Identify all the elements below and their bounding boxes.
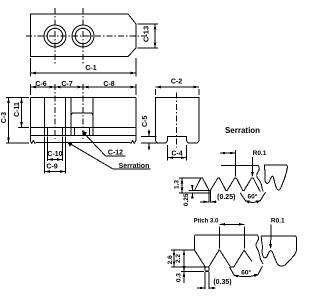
- svg-text:C-2: C-2: [171, 78, 182, 85]
- hole H1 counterbore circle: [44, 25, 66, 47]
- dimension C-3: [1, 98, 29, 144]
- svg-text:Serration: Serration: [119, 163, 150, 170]
- serration detail 2 dim (0.35) root width: [197, 279, 232, 289]
- serration detail 2 break S-curve: [256, 235, 263, 263]
- svg-text:2.6: 2.6: [167, 255, 174, 264]
- svg-text:(0.25): (0.25): [217, 194, 235, 201]
- serration detail 2 root relief: [205, 267, 209, 289]
- label Serration leader front view: [67, 142, 151, 170]
- hole H2 bore circle: [75, 28, 91, 44]
- svg-text:60°: 60°: [241, 269, 251, 277]
- svg-text:Serration: Serration: [225, 126, 260, 135]
- serration detail 1 pitch dimension: [220, 150, 236, 177]
- centerline hole H1 vertical: [54, 8, 56, 64]
- hole H1 counterbore right line: [65, 98, 67, 128]
- svg-text:R0.1: R0.1: [271, 218, 285, 225]
- svg-text:C-13: C-13: [142, 26, 151, 42]
- serration detail 1 top surface line: [221, 165, 258, 167]
- svg-text:C-8: C-8: [103, 81, 114, 88]
- svg-text:C-9: C-9: [46, 163, 57, 170]
- svg-text:C-11: C-11: [14, 102, 21, 117]
- serration detail 2 angle 60: [230, 266, 263, 278]
- serration detail 1 dim 1.3: [174, 178, 184, 193]
- front view outline: [31, 98, 137, 144]
- serration detail 1 root relief rect: [209, 190, 211, 202]
- svg-text:C-4: C-4: [171, 151, 182, 158]
- centerline horizontal top view: [26, 35, 148, 37]
- svg-text:C-12: C-12: [108, 150, 123, 157]
- centerline front view hole H1: [54, 84, 56, 139]
- hole H1 counterbore left line: [44, 98, 46, 128]
- svg-text:C-10: C-10: [47, 151, 62, 158]
- front view serration root line: [31, 135, 137, 137]
- serration detail 2 R0.1 label: [269, 218, 285, 250]
- serration detail 2 top surface line: [194, 235, 258, 250]
- dimension C-10: [47, 137, 62, 162]
- svg-text:C-3: C-3: [1, 112, 8, 123]
- svg-text:1.3: 1.3: [174, 180, 181, 189]
- serration detail 1 enlarged tooth blob: [264, 165, 287, 190]
- serration detail 1 R0.1 label: [251, 150, 267, 177]
- serration detail 1 angle 60: [240, 192, 266, 203]
- key block top chamfered: [71, 113, 93, 115]
- dimension C-13: [138, 24, 159, 48]
- serration detail 2 profile zigzag: [194, 250, 252, 267]
- serration detail 2 pitch 3.0 dimension: [194, 219, 245, 249]
- serration detail 1 profile zigzag: [195, 178, 261, 192]
- dimension C-2: [156, 78, 200, 95]
- hole H2 counterbore circle: [72, 25, 94, 47]
- hole H1 bore circle: [47, 28, 63, 44]
- side view centerline: [176, 93, 178, 148]
- svg-text:0.25: 0.25: [183, 193, 190, 206]
- label C-12 leader: [82, 131, 126, 157]
- serration detail 1 break S-curve: [257, 166, 263, 192]
- svg-text:Pitch 3.0: Pitch 3.0: [194, 219, 219, 225]
- serration detail 1 peak extension line: [179, 177, 202, 179]
- side view outline: [156, 98, 200, 144]
- front view serration teeth left: [31, 141, 37, 144]
- dimension C-1: [31, 58, 137, 77]
- svg-text:(0.35): (0.35): [213, 279, 231, 286]
- front view serration tip line: [37, 142, 130, 144]
- centerline hole H2 vertical: [82, 8, 84, 64]
- dimension C-4: [168, 145, 187, 161]
- slot right line: [92, 98, 94, 128]
- dimension C-11: [14, 98, 29, 128]
- serration detail 1 root bottom extension line: [179, 192, 209, 194]
- serration detail 1 root extension line: [189, 189, 209, 191]
- dimension C-9: [45, 137, 66, 174]
- svg-text:C-5: C-5: [142, 116, 149, 127]
- centerline front view hole H2: [82, 84, 84, 139]
- serration detail 1 dim 0.25: [183, 185, 194, 206]
- svg-text:C-6: C-6: [35, 81, 46, 88]
- slot left line: [70, 98, 72, 128]
- serration detail 2 dim 2.6: [167, 250, 205, 267]
- svg-text:2.2: 2.2: [175, 254, 182, 263]
- svg-text:R0.1: R0.1: [253, 150, 267, 157]
- svg-text:C-7: C-7: [61, 81, 72, 88]
- dimension C-5: [141, 116, 158, 150]
- serration detail 2 enlarged tooth blob: [261, 236, 296, 266]
- svg-text:60°: 60°: [247, 193, 257, 201]
- svg-text:0.3: 0.3: [175, 273, 182, 282]
- serration detail 1 dim (0.25) root width: [200, 194, 235, 203]
- dimension row C-6 C-7 C-8: [31, 81, 137, 95]
- serration detail 2 dim 2.2: [175, 250, 204, 272]
- front view serration teeth right: [130, 141, 137, 144]
- top view outline: [31, 14, 137, 57]
- front view step line: [31, 127, 137, 129]
- serration detail 2 dim 0.3: [175, 272, 185, 283]
- band verticals below step: [44, 128, 46, 136]
- svg-text:C-1: C-1: [85, 65, 96, 72]
